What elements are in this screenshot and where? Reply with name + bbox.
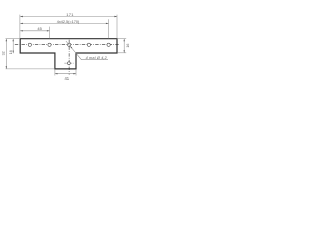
hole 1: [28, 43, 31, 46]
extension line hole2 centerline up: [49, 27, 51, 39]
tab hole: [68, 62, 71, 65]
leader line to hole diameter note: [66, 41, 108, 60]
extension line top-left horizontal: [6, 38, 21, 40]
horizontal centerline through bar holes: [15, 44, 120, 46]
svg-text:4x42,5(=170): 4x42,5(=170): [57, 20, 80, 24]
dimension line to hole 2: [20, 30, 49, 32]
extension lines right side: [117, 38, 126, 40]
plate outline with bottom tab: [20, 39, 117, 69]
dimension line overall width: [20, 16, 117, 18]
svg-text:41: 41: [64, 76, 69, 81]
dimension line tab width: [55, 73, 76, 75]
dimension line hole pattern: [20, 22, 108, 24]
svg-text:16: 16: [126, 44, 130, 48]
svg-text:16: 16: [9, 50, 13, 54]
hole 4: [87, 43, 90, 46]
extension line left edge (top): [19, 15, 21, 39]
extension lines below tab: [54, 69, 56, 75]
hole 3: [68, 43, 71, 46]
dimension line plate height left: [12, 39, 14, 54]
extension line right edge (top): [116, 15, 118, 39]
short horizontal centerline of tab hole: [64, 62, 74, 64]
extension line tab bottom to left: [6, 68, 55, 70]
svg-text:4 mal Ø 4,2: 4 mal Ø 4,2: [86, 56, 108, 60]
dimension line plate height right: [123, 39, 125, 53]
dimension line overall height left: [5, 39, 7, 69]
svg-text:32: 32: [1, 51, 5, 55]
hole 5: [107, 43, 110, 46]
vertical centerline through hole 3 and tab hole: [68, 40, 70, 75]
svg-text:45: 45: [37, 26, 42, 31]
hole 2: [48, 43, 51, 46]
svg-text:171: 171: [66, 12, 74, 17]
extension line hole5 centerline up: [108, 19, 110, 38]
